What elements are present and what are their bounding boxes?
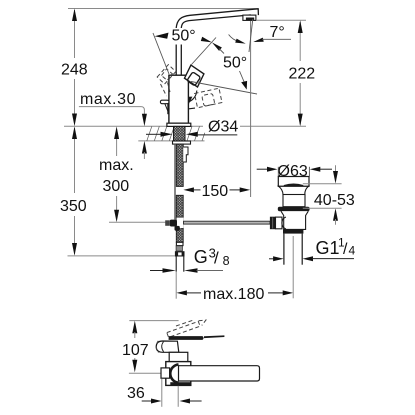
arrow max.30 up to deck bottom xyxy=(142,141,147,154)
rod knob at waste xyxy=(270,217,276,230)
extension line: top of spout (248 ref) xyxy=(68,8,258,10)
body xyxy=(166,362,191,386)
svg-text:150: 150 xyxy=(202,183,229,200)
hose end fitting band xyxy=(176,242,183,245)
arrow 50-1 left xyxy=(155,33,169,39)
svg-text:248: 248 xyxy=(61,62,88,79)
dim 34 arrows xyxy=(146,133,161,135)
deck slab hatching xyxy=(147,126,205,140)
dimension line 350 vertical xyxy=(74,128,76,193)
svg-text:/: / xyxy=(343,241,348,258)
hose edges at rod crossing xyxy=(175,217,177,228)
supply hose second segment xyxy=(176,195,183,217)
arrow 50-2 lower head xyxy=(241,81,247,90)
waste plug cap xyxy=(278,177,309,187)
dim 107 xyxy=(132,321,137,334)
dim 36 xyxy=(161,379,163,407)
waste bottom ring xyxy=(283,229,303,233)
svg-text:300: 300 xyxy=(103,178,130,195)
svg-text:G1: G1 xyxy=(316,238,340,258)
waste seal band xyxy=(278,207,310,212)
svg-text:8: 8 xyxy=(223,254,230,268)
svg-text:50°: 50° xyxy=(223,55,247,72)
dim 40-53 xyxy=(335,165,337,173)
small square left xyxy=(161,368,170,378)
svg-text:40-53: 40-53 xyxy=(314,192,355,209)
washer under deck xyxy=(173,141,191,144)
7 deg right arrow + leader xyxy=(253,38,263,42)
arrow 248 top xyxy=(72,9,77,22)
spout riser xyxy=(175,45,177,76)
7 deg slanted line xyxy=(249,19,253,52)
dimension 222 vertical xyxy=(299,22,301,61)
waste lower body xyxy=(281,211,308,229)
arrow max.30 down to deck top xyxy=(142,114,147,127)
arrow 50-2 lower shaft xyxy=(240,71,246,84)
G3/8 pipe outline xyxy=(175,257,177,272)
pop-up rod horizontal xyxy=(177,218,184,229)
paddle ghost dashes xyxy=(156,341,158,353)
waste tailpipe xyxy=(283,234,285,265)
angle ray upper right xyxy=(192,38,217,65)
base plate xyxy=(167,123,191,126)
extension line top (107 ref) xyxy=(129,320,178,322)
svg-text:350: 350 xyxy=(60,198,87,215)
svg-text:36: 36 xyxy=(127,385,145,402)
extension line aerator (222 ref) xyxy=(256,19,306,21)
dimension line 248 vertical xyxy=(74,10,76,58)
handle dashed left position xyxy=(157,65,176,96)
svg-text:max.: max. xyxy=(99,157,134,174)
deck bottom extension line xyxy=(138,140,204,142)
svg-text:107: 107 xyxy=(122,342,149,359)
waste upper body xyxy=(283,195,305,207)
waste taper xyxy=(279,186,309,194)
pop-up waste: dim 63 xyxy=(257,168,268,170)
max.180 dimension xyxy=(175,272,177,299)
extension line spout centerline (107 ref) xyxy=(129,372,161,374)
arrow 350 bottom xyxy=(72,243,77,256)
extension line: end of supply hose (350 ref) xyxy=(68,255,175,257)
aerator xyxy=(243,15,256,20)
threaded shank through deck xyxy=(174,126,186,140)
small stub right of body xyxy=(189,107,195,110)
dashed lever raised xyxy=(167,320,206,337)
G3/8 dim arrows xyxy=(150,270,163,272)
pop-up rod knob (left of body) xyxy=(160,100,169,104)
G3/8 nut xyxy=(175,251,185,256)
svg-text:G: G xyxy=(194,247,208,267)
arrow max.300 down to rod xyxy=(114,210,119,223)
body bottom dark band xyxy=(170,382,191,385)
svg-text:4: 4 xyxy=(349,244,356,258)
arrow 350 top xyxy=(72,126,77,139)
spout xyxy=(176,9,258,28)
svg-text:222: 222 xyxy=(289,66,316,83)
water stream vertical line xyxy=(250,21,252,197)
arrow max.300 up to deck top xyxy=(114,126,119,139)
neck xyxy=(169,352,188,361)
extension line rod level xyxy=(109,221,167,223)
supply hose third segment xyxy=(176,228,183,242)
handle pivot dome arc xyxy=(188,91,196,103)
handle paddle solid (tilted right) xyxy=(185,65,204,87)
arrow 50-2 upper xyxy=(212,42,222,51)
paddle front piece xyxy=(156,341,179,352)
svg-text:Ø34: Ø34 xyxy=(208,119,238,136)
stepped fitting right of hose xyxy=(183,147,188,162)
G1 1/4 dim arrows xyxy=(269,258,275,260)
angle ray left (dashed handle) xyxy=(153,33,169,74)
spout bar xyxy=(179,366,260,381)
svg-text:/: / xyxy=(214,249,219,268)
svg-text:7°: 7° xyxy=(270,24,285,41)
spout left cap arc xyxy=(170,364,178,382)
7 deg left arc arrow xyxy=(229,35,239,42)
svg-text:max.180: max.180 xyxy=(203,286,264,303)
svg-text:50°: 50° xyxy=(172,28,196,45)
svg-text:max.30: max.30 xyxy=(80,91,136,108)
handle dashed right-low position xyxy=(195,88,223,108)
dimension max.300 vertical xyxy=(116,139,118,156)
faucet body (front view) xyxy=(169,75,189,123)
angle ray lower right xyxy=(191,82,257,95)
rod knob at faucet xyxy=(170,220,177,227)
ball joint mid block xyxy=(276,217,283,229)
arrow 50-1 right xyxy=(201,37,212,43)
dimension 150 xyxy=(183,187,194,192)
solid lever arm xyxy=(169,336,204,340)
arrow 248 bottom xyxy=(72,114,77,127)
ball joint arc xyxy=(282,217,286,229)
supply hose upper segment xyxy=(176,144,183,186)
vertical pop-up rod below deck xyxy=(174,144,176,220)
deck top extension line xyxy=(64,125,203,127)
